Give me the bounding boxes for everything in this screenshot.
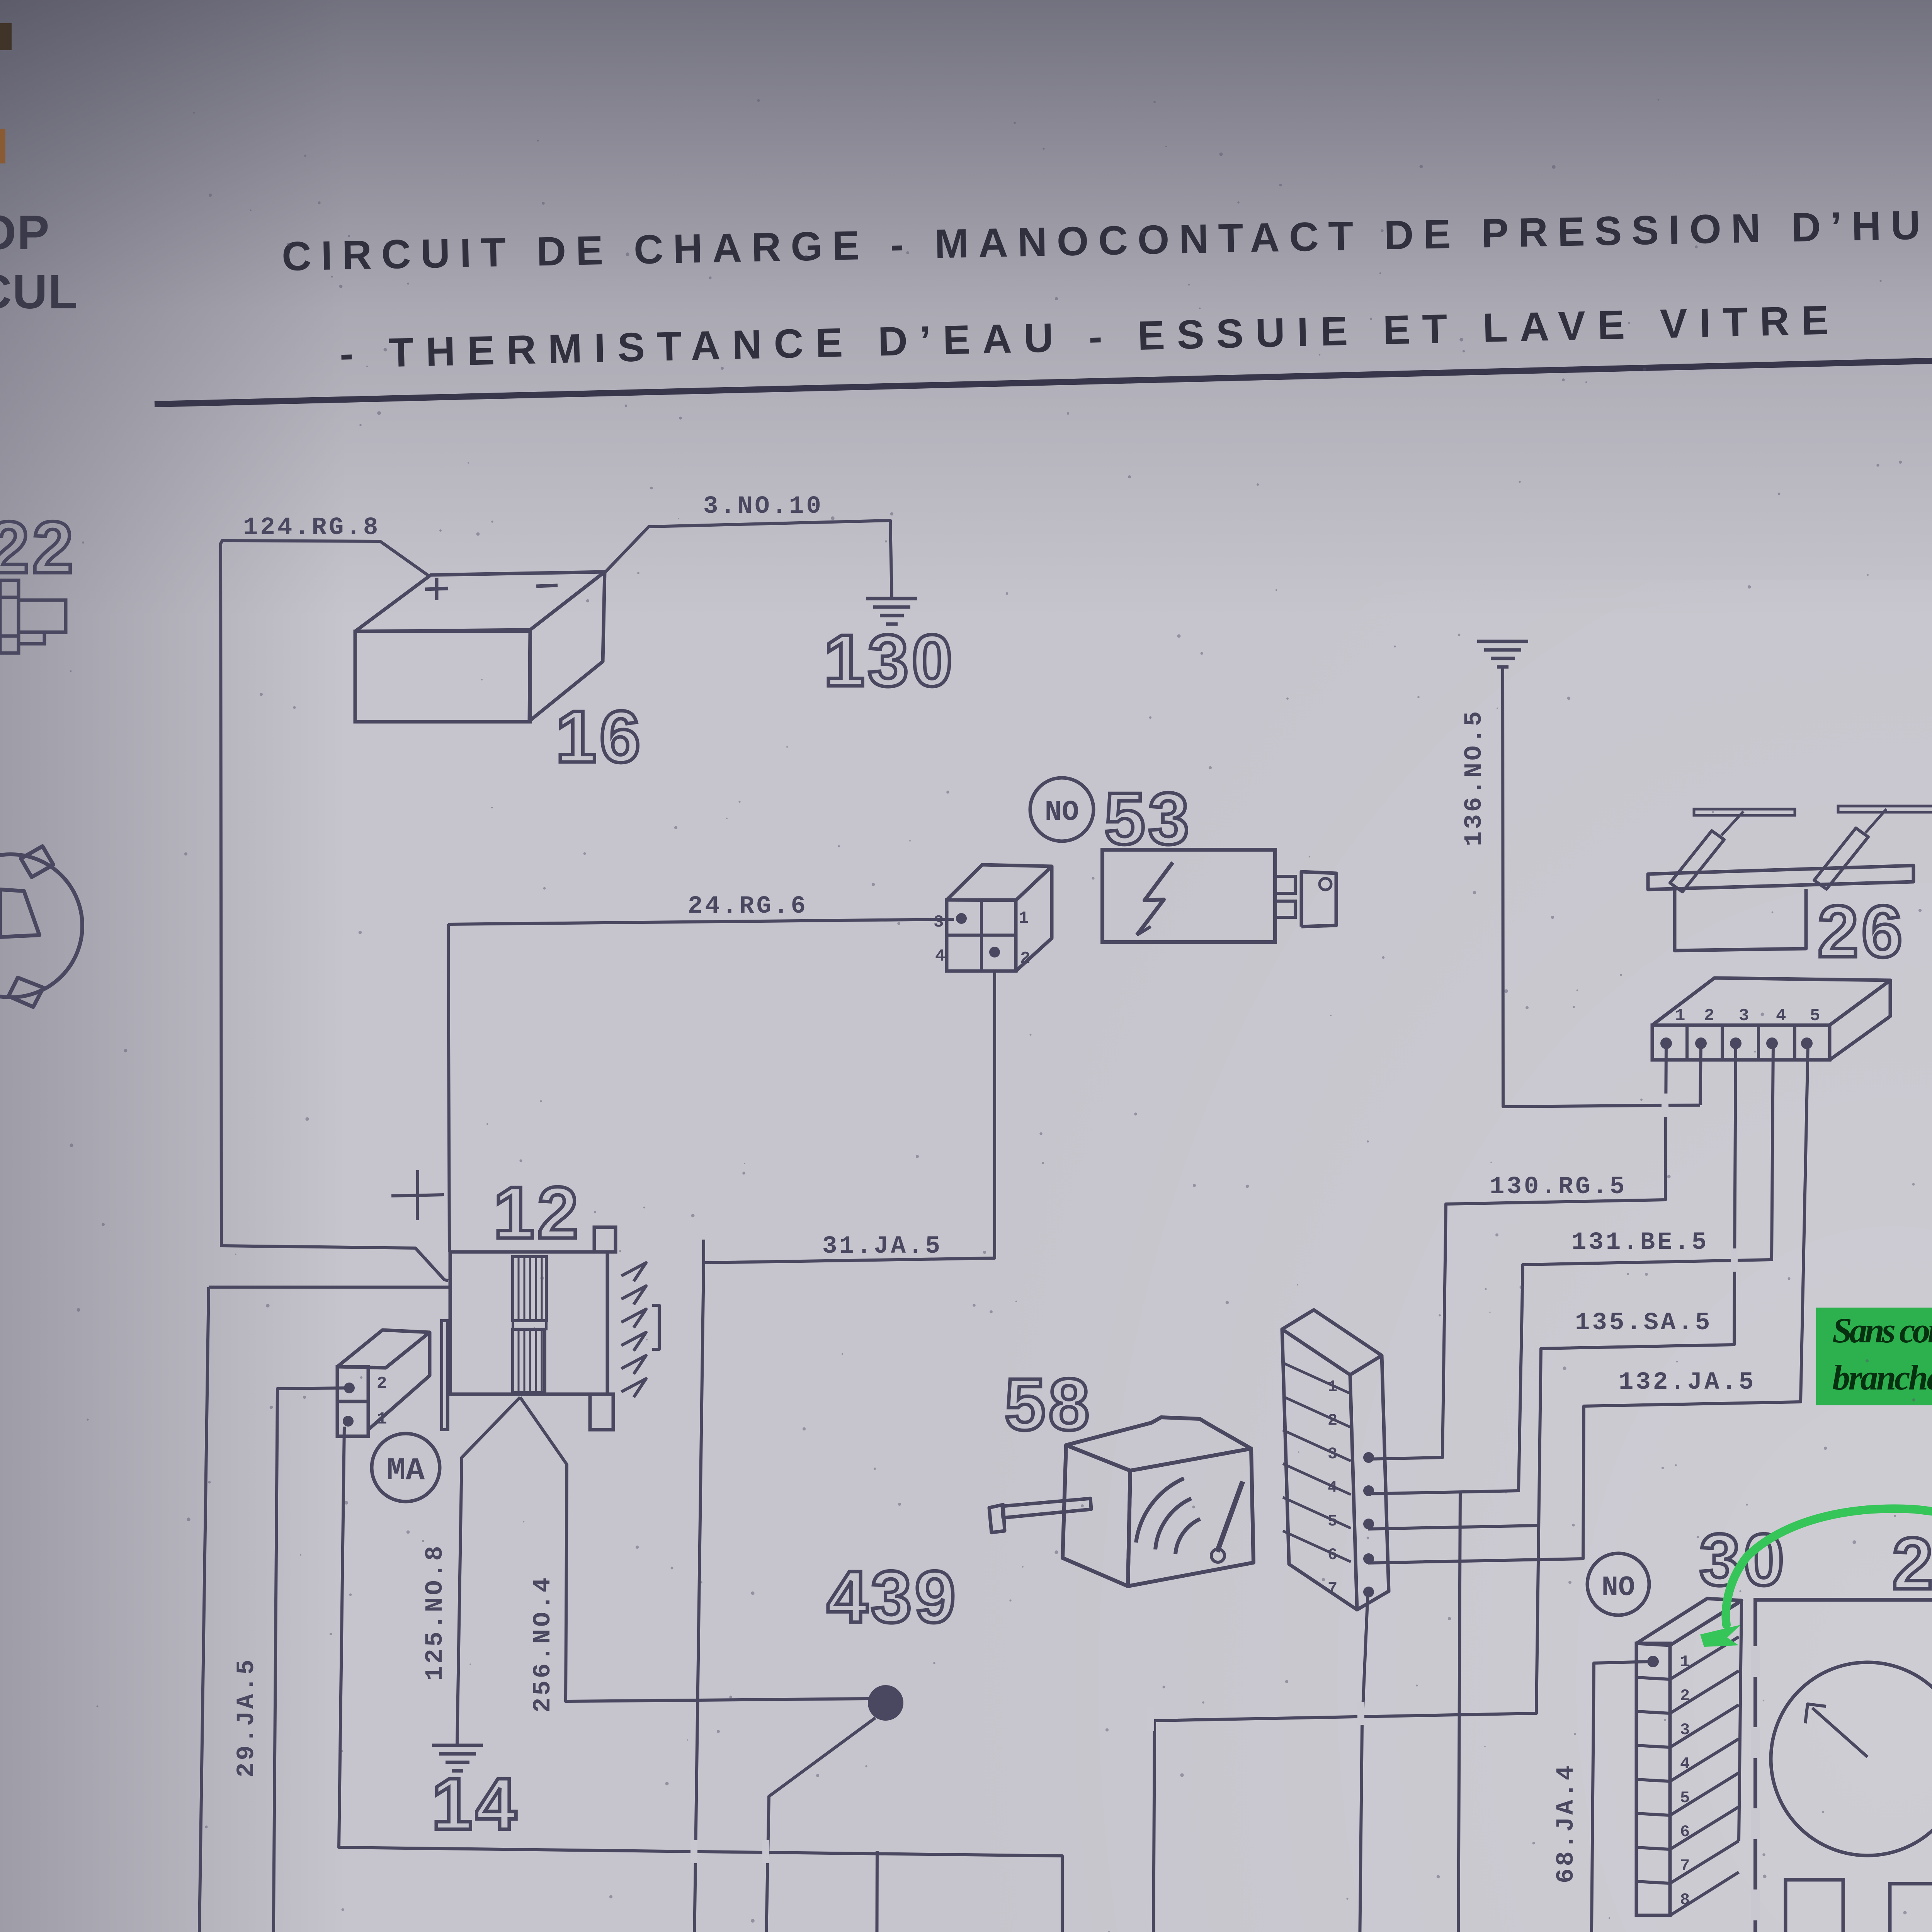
7-pin connector of switch 58	[1282, 1310, 1382, 1375]
needle arrowhead	[1805, 1704, 1826, 1723]
branch to 7-pin pin 5	[1368, 1526, 1538, 1529]
svg-text:2: 2	[1680, 1687, 1690, 1705]
gear / rotor icon (left edge)	[0, 854, 82, 997]
svg-text:5: 5	[1680, 1789, 1690, 1807]
svg-text:NO: NO	[1045, 796, 1079, 829]
wiper motor body	[1675, 889, 1806, 951]
svg-text:NO: NO	[1602, 1572, 1635, 1604]
5-pin connector of wiper motor	[1652, 1025, 1830, 1060]
battery 16 (3D box)	[355, 631, 530, 722]
connector 30 (8 pin 3D)	[1636, 1643, 1670, 1915]
svg-text:130: 130	[824, 620, 956, 702]
svg-text:1: 1	[1680, 1653, 1690, 1671]
connector 22 symbol	[0, 580, 19, 653]
svg-text:3: 3	[1328, 1445, 1337, 1463]
svg-text:3: 3	[1739, 1006, 1749, 1026]
flasher right plug tabs	[1275, 876, 1295, 893]
svg-text:2: 2	[377, 1374, 387, 1393]
green arrow blob top (at connector 30 pin 1)	[1700, 1625, 1741, 1647]
wire 29.JA.5 MA pin2 to fusebox	[272, 1388, 460, 1932]
svg-text:29.JA.5: 29.JA.5	[233, 1657, 261, 1777]
svg-text:24.RG.6: 24.RG.6	[688, 893, 808, 920]
switch 58 dial arcs	[1136, 1478, 1184, 1543]
svg-text:4: 4	[1328, 1478, 1337, 1497]
svg-text:26: 26	[1818, 891, 1905, 973]
svg-text:3: 3	[934, 913, 944, 932]
node 439 junction dot	[868, 1685, 903, 1721]
alternator rotor hatch block A	[513, 1257, 546, 1321]
wire 3.NO.10 battery- to ground 130	[605, 520, 892, 598]
svg-text:7: 7	[1680, 1857, 1690, 1875]
svg-text:135.SA.5: 135.SA.5	[1575, 1309, 1712, 1337]
svg-text:132.JA.5: 132.JA.5	[1619, 1369, 1756, 1396]
upper gauge	[1771, 1662, 1932, 1855]
svg-text:58: 58	[1005, 1364, 1092, 1446]
svg-text:1: 1	[1019, 909, 1029, 928]
connector 26 pin contact	[1660, 1037, 1672, 1049]
switch 58 left side face	[1063, 1445, 1130, 1586]
alternator rotor hatch block B	[513, 1329, 545, 1393]
wiper arm right	[1814, 828, 1868, 889]
alternator diode chevrons	[621, 1263, 646, 1281]
svg-text:3.NO.10: 3.NO.10	[703, 493, 823, 520]
wire 23.RG.6	[209, 1286, 449, 1289]
wire 68.JA.4 fuse1 to connector 30 pin 1	[537, 1662, 1653, 1932]
wire 136.NO.5 ground to 5-pin connector pin 2	[1503, 667, 1700, 1107]
svg-text:branché, ça charge !: branché, ça charge !	[1832, 1358, 1932, 1397]
NO circle near 30	[1587, 1553, 1649, 1615]
svg-text:12: 12	[493, 1172, 581, 1254]
wire: 24.RG.6 corner down to alternator top	[448, 924, 449, 1252]
switch 58 lever	[1002, 1498, 1091, 1518]
switch 58 3D box : top face with notch	[1066, 1417, 1251, 1471]
svg-text:2: 2	[1704, 1006, 1714, 1026]
svg-text:2: 2	[1328, 1411, 1337, 1430]
svg-text:CUL: CUL	[0, 265, 78, 319]
green annotation box	[1816, 1308, 1932, 1405]
needle	[1812, 1708, 1867, 1757]
svg-text:439: 439	[827, 1556, 959, 1638]
wiper mount bar	[1648, 866, 1913, 889]
connector 26 pin contact	[1695, 1037, 1707, 1049]
svg-text:16: 16	[556, 696, 643, 778]
svg-text:OP: OP	[0, 206, 50, 260]
alternator top-right tab	[594, 1227, 616, 1252]
small orange sticker top-left edge	[0, 129, 5, 163]
connector 26 pin contact	[1730, 1037, 1742, 1049]
wire 124.RG.8 battery+ to alternator	[221, 541, 448, 1281]
7-pin contact	[1363, 1587, 1374, 1597]
warning lamp window right	[1890, 1884, 1932, 1932]
svg-text:136.NO.5: 136.NO.5	[1461, 709, 1488, 846]
svg-text:29: 29	[1892, 1523, 1932, 1605]
7-pin contact	[1363, 1519, 1374, 1529]
connector 26 pin contact	[1801, 1037, 1813, 1049]
green pen loop annotation	[1718, 1509, 1932, 1932]
wire from alternator D- tab down to fuse 2	[379, 1263, 704, 1932]
wire from 7pin pin7 down (133.RG.5) to 293 pin1	[1059, 1592, 1368, 1932]
title underline rule	[155, 359, 1932, 404]
svg-text:8: 8	[1680, 1891, 1690, 1909]
NO circle near 53	[1030, 778, 1094, 841]
dashed gaps on cluster left edge	[1751, 1646, 1760, 1932]
MA 2-pin connector (3D)	[337, 1367, 368, 1401]
branch down to 293 pin 3	[876, 1851, 877, 1932]
crossing break gaps	[690, 1094, 1738, 1932]
ground 130 symbol	[866, 597, 917, 600]
connector 53 (2x2, 3D)	[947, 900, 1016, 971]
wire pin2 to ground 136	[1700, 1043, 1701, 1105]
ground 14 symbol	[432, 1744, 483, 1747]
wiper motor 26: blades	[1694, 809, 1795, 815]
wire 256.NO.4 right leg to node 439	[520, 1397, 870, 1701]
svg-text:256.NO.4: 256.NO.4	[529, 1575, 557, 1713]
svg-text:7: 7	[1328, 1579, 1337, 1598]
svg-text:6: 6	[1680, 1823, 1690, 1841]
svg-text:131.BE.5: 131.BE.5	[1571, 1229, 1709, 1257]
pin 2 of MA connector	[344, 1383, 355, 1393]
battery minus terminal mark	[536, 585, 558, 586]
svg-text:1: 1	[377, 1410, 387, 1429]
MA motor circle	[372, 1434, 440, 1502]
wire 130.RG.5 : 5pin pin1 to 7pin pin3	[1368, 1043, 1666, 1459]
svg-text:2: 2	[1020, 949, 1030, 968]
svg-text:1: 1	[1675, 1006, 1685, 1026]
instrument cluster 29 panel	[1755, 1600, 1932, 1932]
53 pin 3 contact	[956, 913, 967, 924]
7-pin contact	[1363, 1452, 1374, 1463]
connector 30 pin 1 contact	[1647, 1656, 1659, 1667]
svg-text:4: 4	[1776, 1006, 1786, 1026]
switch 58 needle	[1217, 1481, 1243, 1552]
ground 136 symbol	[1477, 640, 1528, 643]
svg-text:31.JA.5: 31.JA.5	[822, 1233, 942, 1260]
switch 58 front face	[1128, 1449, 1253, 1586]
wire 134.BE.5 down to 293 pin 2	[1059, 1492, 1460, 1932]
alternator left bar (brush)	[442, 1321, 448, 1430]
wire 24.RG.6 to connector 53 pin 3	[448, 919, 954, 924]
53 pin 2 contact	[989, 947, 1000, 957]
wire from MA pin1 down/right to 32.SA.NO.4 and 31 pin9	[339, 1427, 1641, 1932]
pin 1 of MA connector	[343, 1416, 354, 1427]
connector 26 pin contact	[1766, 1037, 1778, 1049]
svg-text:4: 4	[1680, 1755, 1690, 1773]
wiper arm left	[1670, 831, 1724, 892]
svg-text:4: 4	[935, 947, 945, 966]
alternator 12 body	[450, 1252, 607, 1394]
svg-text:68.JA.4: 68.JA.4	[1553, 1763, 1580, 1883]
svg-text:14: 14	[432, 1763, 519, 1845]
svg-text:3: 3	[1680, 1721, 1690, 1739]
wire 31.JA.5 from alternator to 53 pin 2	[704, 972, 995, 1263]
warning lamp window left	[1786, 1880, 1843, 1932]
7-pin contact	[1363, 1485, 1374, 1496]
svg-text:1: 1	[1328, 1378, 1337, 1396]
svg-text:130.RG.5: 130.RG.5	[1490, 1173, 1627, 1201]
alternator bottom-right tab	[590, 1394, 613, 1430]
wire 135.SA.5 : 5pin pin3 down and to 7pin pin5 / 293	[1059, 1043, 1736, 1932]
diode bracket	[652, 1305, 659, 1349]
svg-text:125.NO.8: 125.NO.8	[422, 1544, 449, 1681]
wire 131.BE.5 : 5pin pin4 to 7pin pin4 + 134.BE.5 down	[1368, 1044, 1773, 1494]
svg-text:5: 5	[1328, 1512, 1337, 1531]
battery plus terminal mark	[425, 588, 448, 589]
svg-text:5: 5	[1810, 1006, 1820, 1026]
alternator belt / wires to grounds: 125.NO.8 left leg	[457, 1397, 520, 1745]
svg-text:22: 22	[0, 507, 76, 588]
svg-text:53: 53	[1104, 778, 1192, 860]
flasher unit box with lightning bolt	[1102, 850, 1275, 942]
svg-text:6: 6	[1328, 1546, 1337, 1564]
7-pin contact	[1363, 1553, 1374, 1564]
svg-text:Sans compteur ni témoin: Sans compteur ni témoin	[1832, 1311, 1932, 1350]
svg-text:124.RG.8: 124.RG.8	[243, 514, 380, 542]
wire from 439 node diagonal down to 90.NO.2	[401, 1718, 875, 1932]
svg-text:MA: MA	[387, 1453, 425, 1489]
wire 132.JA.5 : 5pin pin5 to 7pin pin6	[1368, 1044, 1808, 1563]
plus node symbol near alternator	[391, 1195, 444, 1196]
